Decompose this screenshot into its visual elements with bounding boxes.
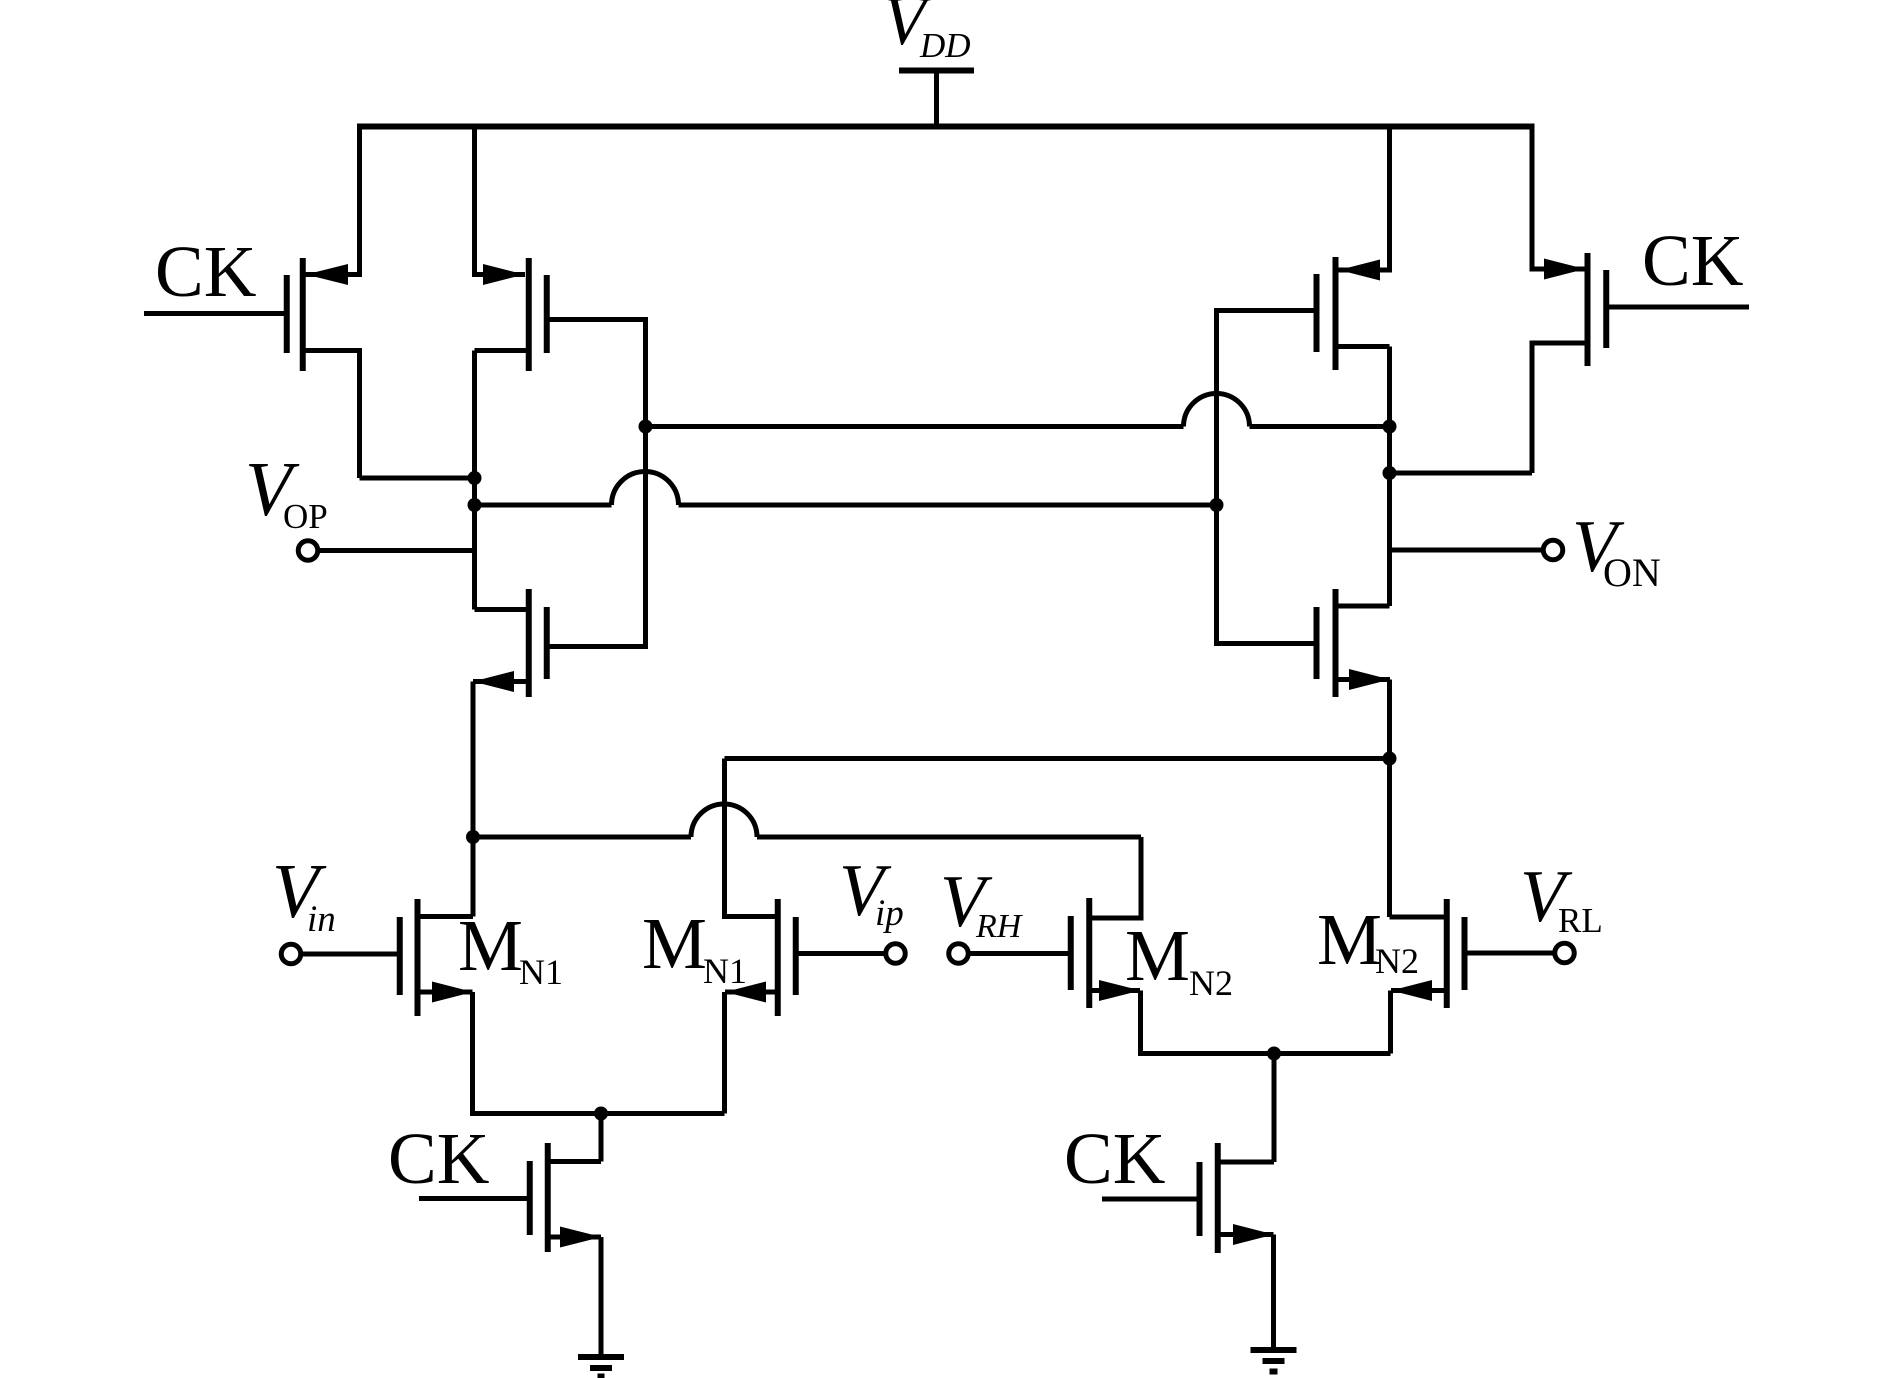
svg-text:in: in <box>307 899 336 940</box>
node junction dot (1389,427) <box>1383 420 1397 434</box>
label VRH <box>940 861 1024 945</box>
label VDD <box>883 0 971 65</box>
terminal circle VRL <box>1555 943 1575 963</box>
wire right tail drain vertical <box>1272 1054 1277 1163</box>
transistor tail right (CK NMOS) <box>1200 1143 1275 1350</box>
wire MN1b drain to right latch source (y=758) <box>725 756 1390 761</box>
transistor P4 (right clock PMOS, CK gate) <box>1532 127 1606 474</box>
label MN2a <box>1125 915 1233 1003</box>
wire CK gate lead of P4 <box>1609 305 1750 310</box>
label MN1b <box>642 903 747 991</box>
svg-text:M: M <box>642 903 707 984</box>
wire cross-coupling A (left gate to right output, y=426) <box>646 394 1390 427</box>
terminal circle VOP <box>298 541 318 561</box>
svg-text:M: M <box>1125 915 1190 996</box>
node junction dot (1389,758) <box>1383 752 1397 766</box>
transistor MN1b (input NMOS, Vip gate) <box>725 759 796 1114</box>
svg-text:DD: DD <box>919 26 971 65</box>
wire right output node vertical (VON node) <box>1387 347 1392 607</box>
transistor MN2b (reference NMOS, VRL gate) <box>1390 899 1465 1054</box>
node junction dot (1389,473) <box>1383 466 1397 480</box>
node junction dot (473,837) <box>466 830 480 844</box>
wire left inverter gate net (P2 gate + NL gate) <box>549 320 646 647</box>
svg-text:M: M <box>1317 899 1382 980</box>
wire VRH gate lead <box>970 951 1068 956</box>
node junction dot left tail (601,1113) <box>594 1107 608 1121</box>
label MN2b <box>1317 899 1419 981</box>
transistor NL (left latch NMOS) <box>473 589 547 917</box>
wire VON terminal lead <box>1390 548 1542 553</box>
label VON <box>1572 506 1661 595</box>
node junction dot (474,505) <box>468 498 482 512</box>
ground symbol left <box>578 1357 624 1377</box>
transistor MN1a (input NMOS, Vin gate) <box>400 899 725 1114</box>
wire CK gate lead (bottom right) <box>1102 1197 1197 1202</box>
terminal circle Vin <box>281 944 301 964</box>
node junction dot (645,426) <box>639 420 653 434</box>
label Vin <box>272 848 336 940</box>
node junction dot (1216,505) <box>1210 498 1224 512</box>
svg-text:N1: N1 <box>703 951 747 991</box>
wire CK gate lead of P1 <box>144 311 285 316</box>
transistor P3 (right latch PMOS) <box>1317 127 1390 371</box>
svg-text:N2: N2 <box>1375 941 1419 981</box>
transistor P2 (left latch PMOS) <box>475 127 547 372</box>
transistor P1 (left clock PMOS, CK gate) <box>287 127 360 479</box>
svg-text:N1: N1 <box>519 952 563 992</box>
transistor tail left (CK NMOS) <box>530 1143 602 1357</box>
wire VOP terminal lead <box>320 548 475 553</box>
transistor NR (right latch NMOS) <box>1317 589 1391 917</box>
wire VDD supply rail <box>357 124 1535 130</box>
label Vip <box>839 850 904 934</box>
wire Vin gate lead <box>303 952 398 957</box>
wire left tail drain vertical <box>599 1114 604 1162</box>
svg-text:M: M <box>458 905 523 986</box>
svg-text:CK: CK <box>1642 220 1743 301</box>
ground symbol right <box>1251 1350 1297 1372</box>
label VRL <box>1520 856 1603 940</box>
svg-text:CK: CK <box>1064 1118 1165 1199</box>
svg-text:ON: ON <box>1603 550 1661 595</box>
wire common source node (y=837) with hop over MN1b drain <box>473 804 1141 918</box>
svg-text:RL: RL <box>1558 901 1603 940</box>
wire right tail node (y=1053) <box>1141 1051 1391 1056</box>
wire Vip gate lead <box>798 951 884 956</box>
node junction dot right tail (1274,1053) <box>1267 1047 1281 1061</box>
wire cross-coupling B (left output to right gate, y=505) <box>475 472 1217 506</box>
wire VRL gate lead <box>1467 951 1553 956</box>
power VDD symbol <box>899 71 974 127</box>
transistor MN2a (reference NMOS, VRH gate) <box>1071 898 1391 1054</box>
svg-text:RH: RH <box>975 908 1024 945</box>
svg-text:CK: CK <box>155 231 256 312</box>
wire P1 drain to output node <box>360 476 475 481</box>
label VOP <box>245 446 328 536</box>
terminal circle Vip <box>886 944 906 964</box>
wire CK gate lead (bottom left) <box>419 1196 527 1201</box>
svg-text:ip: ip <box>875 893 904 934</box>
terminal circle VRH <box>949 944 969 964</box>
wire left output node vertical (VOP node) <box>472 351 477 610</box>
svg-text:OP: OP <box>283 497 328 536</box>
node junction dot (474,478) <box>468 471 482 485</box>
wire P4 drain to right output node <box>1390 471 1533 476</box>
svg-text:N2: N2 <box>1189 963 1233 1003</box>
svg-text:CK: CK <box>388 1118 489 1199</box>
wire right inverter gate net (P3 gate + NR gate) <box>1217 311 1315 644</box>
terminal circle VON <box>1543 540 1563 560</box>
label MN1a <box>458 905 563 992</box>
